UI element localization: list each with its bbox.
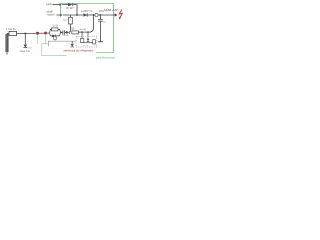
arrow rail output	[115, 13, 118, 16]
node J3	[100, 14, 102, 16]
svg-text:fus: fus	[90, 11, 94, 13]
element dropper (thick bar)	[5, 34, 8, 52]
resistor R4	[72, 31, 79, 34]
zener DZ1	[24, 45, 28, 48]
svg-text:saida: saida	[46, 3, 52, 6]
gray link wire	[48, 41, 76, 46]
node J4	[60, 32, 62, 34]
svg-text:1 kΩ: 1 kΩ	[53, 25, 58, 28]
svg-text:1n4007: 1n4007	[81, 11, 89, 13]
resistor R3 (upper branch)	[50, 29, 61, 33]
rail +12V	[63, 14, 115, 16]
wire J5 down	[81, 32, 83, 38]
ground bar	[98, 41, 103, 43]
lamp NE1	[53, 36, 57, 40]
wire input 2	[57, 14, 61, 16]
diode D2	[84, 13, 88, 16]
wire rail2 left	[7, 33, 50, 34]
node J2	[93, 14, 95, 16]
capacitor C3 (in module)	[93, 40, 96, 44]
wire N1 down	[37, 35, 39, 45]
wire module out	[97, 41, 103, 43]
arrow into box wire 1	[59, 4, 62, 6]
node J6	[87, 31, 89, 33]
svg-text:rc 1u: rc 1u	[84, 45, 88, 47]
capacitor C2 (series)	[61, 31, 66, 33]
svg-text:zener 12v: zener 12v	[20, 50, 31, 53]
svg-text:falante: falante	[48, 13, 56, 16]
svg-text:10u: 10u	[102, 21, 106, 23]
svg-text:SAÍDA +12V: SAÍDA +12V	[104, 9, 118, 12]
wire drop to D5	[71, 41, 73, 44]
diode D6 (in module)	[87, 39, 90, 42]
red node N1	[36, 32, 39, 35]
node A	[24, 33, 26, 35]
arrow into box wire 2	[60, 14, 63, 16]
svg-text:para eletrônicos: para eletrônicos	[96, 55, 116, 59]
svg-text:4,7kΩ 5w: 4,7kΩ 5w	[6, 29, 16, 31]
terminal tip	[6, 52, 8, 54]
diode D5	[70, 44, 74, 47]
wire top feed	[62, 5, 77, 15]
svg-text:eletrônica do refrigerador: eletrônica do refrigerador	[64, 48, 94, 52]
svg-text:1n4148: 1n4148	[62, 35, 70, 37]
faint annotation box	[42, 44, 67, 56]
resistor R5 (in module)	[80, 38, 83, 42]
svg-text:rede: rede	[28, 47, 33, 50]
resistor R1	[9, 31, 17, 35]
red node N2	[44, 32, 47, 35]
node J1	[76, 14, 78, 16]
node J5	[81, 31, 83, 33]
wire rail2 right	[78, 31, 90, 33]
diode D3 (lower branch)	[50, 32, 61, 36]
wire rail1 to rail2 right	[91, 15, 94, 32]
svg-text:bc548: bc548	[80, 29, 87, 31]
fuse F1	[95, 13, 98, 16]
diode D4	[66, 31, 69, 34]
red bolt symbol	[119, 10, 122, 18]
svg-text:22k: 22k	[71, 28, 76, 31]
svg-text:BY127: BY127	[67, 7, 75, 10]
svg-text:10Ω: 10Ω	[63, 19, 67, 21]
wire J6 down	[87, 32, 89, 38]
wire node A down	[24, 33, 26, 44]
diode D1	[68, 3, 73, 6]
wire in module	[82, 42, 94, 44]
wire input 1	[53, 4, 60, 6]
resistor R2 vertical	[70, 15, 72, 32]
capacitor C1 (rail to ground)	[99, 15, 101, 42]
dashed box (snubber module)	[76, 36, 96, 47]
wire N2 down	[45, 34, 47, 44]
green highlight box	[61, 4, 114, 53]
